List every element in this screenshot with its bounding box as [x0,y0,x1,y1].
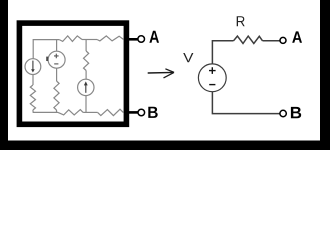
I1 arrow head (down) [31,69,35,72]
wire I1 to R4 [32,75,34,86]
right black frame strip [320,0,330,150]
wire top rail middle [82,39,97,41]
V1 minus [54,63,58,65]
wire R to terminal A [263,40,281,42]
source V1 (circle with + -) [48,51,65,68]
resistor R6 (bottom-left zigzag) [58,110,83,115]
wire T-junction down from top rail [85,40,87,52]
label A (right) [292,31,302,42]
resistor R4 (vertical left) [30,85,35,110]
resistor R3 (top-right zigzag to wall) [97,36,123,41]
V minus [209,84,215,86]
wire source bottom to terminal B [212,92,280,114]
terminal B circle (left box) [138,109,145,116]
label B (right) [291,107,301,118]
label B (left) [148,107,157,118]
terminal B circle (right) [280,110,286,116]
terminal A circle (left box) [138,36,145,43]
dark speck left of V1 [46,57,48,61]
arrow head lower barb [164,72,175,78]
I1 arrow shaft [32,61,34,70]
arrow head upper barb [165,69,174,73]
current source I1 (down arrow) [25,59,41,75]
arrow shaft [148,71,174,74]
wire R4 corner to bottom rail [33,110,58,112]
left black frame strip [0,0,8,150]
V1 plus [54,54,59,59]
wire V1 bottom stub [56,68,58,81]
wire source top to rail corner [212,41,233,64]
wire R8 to I2 [85,71,87,80]
resistor R8 (vertical middle-right) [84,51,89,71]
wire bottom rail middle [83,111,98,113]
resistor R (zigzag) [234,36,263,43]
bottom black frame strip [0,141,330,151]
resistor R2 (top-left zigzag) [59,36,82,42]
terminal B stub (left box) [128,111,138,114]
I2 arrow head (up) [84,81,88,85]
label R [237,16,245,26]
label A (left) [149,31,159,43]
black box enclosure [19,23,126,124]
wire R5 to bottom rail [56,110,58,112]
label V [183,53,193,62]
wire top-left corner down to I1 [33,40,59,59]
voltage source V circle [198,64,226,92]
wire V1 top stub [56,40,58,52]
resistor R5 (vertical under V1) [54,81,59,110]
terminal A circle (right) [280,37,286,43]
resistor R7 (bottom-right zigzag to wall) [98,109,124,115]
I2 arrow shaft [85,84,87,93]
current source I2 (up arrow) [78,79,94,95]
V plus [209,67,216,74]
terminal A stub (left box) [128,38,138,41]
wire I2 to bottom rail [85,96,87,113]
